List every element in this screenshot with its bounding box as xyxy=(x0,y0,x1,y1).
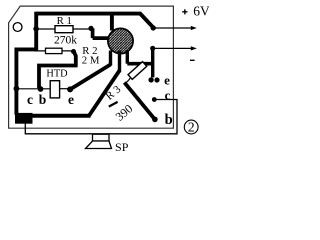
node b pad left xyxy=(38,86,44,92)
wire R1 branch vertical xyxy=(34,12,38,50)
mounting hole xyxy=(13,23,22,32)
node b pad right xyxy=(152,117,158,123)
wire bottom rail xyxy=(30,114,91,118)
node e pads right xyxy=(148,77,153,82)
resistor R3 body xyxy=(128,62,147,80)
svg-text:e: e xyxy=(164,73,170,88)
node R2 right junction xyxy=(71,49,76,54)
node R1 left junction xyxy=(33,26,39,32)
ground pad xyxy=(15,113,33,124)
transistor middle leg xyxy=(118,51,121,73)
wire R2 to HTD xyxy=(39,52,78,89)
svg-text:R 1: R 1 xyxy=(57,15,72,27)
wire top rail xyxy=(36,12,141,16)
wire rail drop to transistor xyxy=(110,13,114,31)
svg-text:SP: SP xyxy=(115,140,129,152)
figure number 2 xyxy=(184,120,198,134)
wire base diagonal to bottom rail xyxy=(89,71,120,116)
svg-text:e: e xyxy=(68,92,74,107)
wire diagonal to b pad xyxy=(124,83,154,120)
transistor left leg xyxy=(109,51,112,66)
node R1 right junction xyxy=(88,26,93,31)
svg-text:6V: 6V xyxy=(193,3,209,18)
label R3 underline xyxy=(109,102,118,107)
wire left rail vertical xyxy=(14,48,18,115)
wire emitter diagonal xyxy=(70,65,110,90)
svg-text:c: c xyxy=(27,92,33,107)
wire c to speaker loop xyxy=(25,100,177,134)
wire R1 to transistor xyxy=(93,28,109,38)
node e pad left xyxy=(67,86,73,92)
wire left rail to HTD xyxy=(16,88,50,90)
transistor right leg xyxy=(126,50,129,64)
resistor R1 body xyxy=(55,26,73,33)
speaker SP xyxy=(93,134,110,141)
node -V junction dot xyxy=(150,46,155,51)
resistor R2 body xyxy=(46,48,63,53)
wire minus vertical xyxy=(151,48,154,77)
resistor R2 leads xyxy=(34,50,73,52)
buzzer HTD right lead xyxy=(60,88,70,90)
wire +6V arrow xyxy=(153,27,192,29)
svg-text:b: b xyxy=(165,112,173,128)
node c pad right xyxy=(152,97,157,102)
buzzer HTD body xyxy=(50,81,59,98)
board outline xyxy=(9,6,174,128)
svg-text:2: 2 xyxy=(188,120,195,135)
svg-text:b: b xyxy=(39,92,47,107)
wire rail diagonal to +6V node xyxy=(140,13,154,28)
label minus xyxy=(190,59,195,61)
svg-text:HTD: HTD xyxy=(46,69,68,80)
resistor R1 leads xyxy=(36,28,91,30)
label +6V xyxy=(182,9,187,14)
wire horizontal to left rail xyxy=(16,47,38,51)
node +6V junction dot xyxy=(151,25,156,30)
svg-text:2 M: 2 M xyxy=(82,55,100,67)
wire collector to minus rail xyxy=(127,62,152,66)
svg-text:c: c xyxy=(165,88,171,103)
wire -V arrow xyxy=(153,47,192,49)
resistor R3 lower lead xyxy=(125,78,131,84)
node on left rail xyxy=(14,86,20,92)
svg-text:270k: 270k xyxy=(54,35,77,47)
transistor Q1 xyxy=(108,28,133,53)
